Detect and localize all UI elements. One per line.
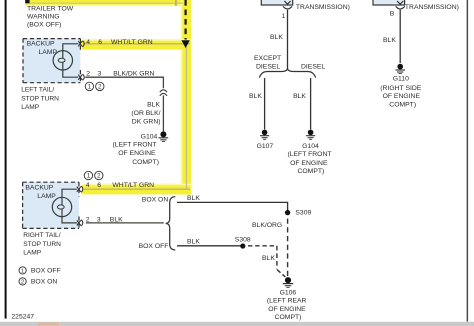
svg-text:OF ENGINE: OF ENGINE xyxy=(383,93,421,100)
wire: lamp2 WHT/LT GRN under highlight xyxy=(84,188,190,190)
wire: BLK except-diesel branch xyxy=(264,78,266,129)
svg-text:4: 4 xyxy=(86,39,90,46)
svg-text:OF ENGINE: OF ENGINE xyxy=(290,160,328,167)
wire: BOX OFF BLK to S308 xyxy=(177,245,243,247)
label: BACKUP LAMP (1) xyxy=(27,40,58,56)
svg-text:2: 2 xyxy=(21,279,24,285)
connector pin lamp1 bottom (2/3) xyxy=(78,74,84,80)
label: G106 (LEFT REAR OF ENGINE COMPT) xyxy=(267,289,307,321)
svg-text:WHT/LT GRN: WHT/LT GRN xyxy=(111,39,153,46)
connector box C2 (transmission, pin B) xyxy=(373,0,405,5)
svg-text:TRANSMISSION): TRANSMISSION) xyxy=(296,4,350,11)
inline connector (double arc) on BLK/DK GRN wire xyxy=(160,90,167,96)
svg-text:6: 6 xyxy=(98,39,102,46)
svg-text:BACKUP: BACKUP xyxy=(27,40,55,47)
lamp L1 (bulb symbol) xyxy=(53,51,72,70)
label: TRAILER TOW WARNING (BOX OFF) xyxy=(27,6,74,29)
brace (BOX ON / BOX OFF alternatives) xyxy=(166,197,176,250)
ground G106 xyxy=(283,277,293,287)
overbrace splitting C1 wire into two branches xyxy=(259,69,315,78)
label: G104 (LEFT FRONT OF ENGINE COMPT) xyxy=(113,133,159,166)
lamp L2 (bulb symbol) xyxy=(52,197,71,216)
svg-text:G104: G104 xyxy=(141,133,158,140)
svg-text:S309: S309 xyxy=(295,209,311,216)
svg-text:BACKUP: BACKUP xyxy=(25,185,53,192)
svg-text:DIESEL: DIESEL xyxy=(301,64,325,71)
svg-text:BOX OFF: BOX OFF xyxy=(31,268,61,275)
svg-text:LAMP: LAMP xyxy=(37,193,56,200)
svg-text:LAMP: LAMP xyxy=(23,250,42,257)
svg-text:BLK: BLK xyxy=(383,37,396,44)
connector pin lamp2 bottom (2/3) xyxy=(77,220,83,226)
wire: vertical WHT/LT GRN under highlight xyxy=(185,44,187,189)
wire: dashed drop with arrow (to WHT/LT GRN) xyxy=(181,0,189,48)
svg-text:225247: 225247 xyxy=(11,313,34,320)
svg-text:BLK: BLK xyxy=(293,93,306,100)
svg-text:G106: G106 xyxy=(280,289,297,296)
wire: BLK from lamp2 to brace xyxy=(86,222,164,224)
connector symbol at C2 xyxy=(396,1,405,9)
svg-text:(LEFT REAR: (LEFT REAR xyxy=(267,297,307,304)
page border left xyxy=(5,0,7,319)
wire: BOX ON BLK to S309 xyxy=(177,202,288,212)
svg-text:(RIGHT SIDE: (RIGHT SIDE xyxy=(380,85,422,92)
wire: grey stub top xyxy=(175,0,177,6)
ground G107 xyxy=(260,130,269,140)
pin labels 4 6 WHT/LT GRN (lamp1) xyxy=(86,39,152,46)
ground G104 (left front) xyxy=(159,131,169,141)
wire: lamp1 internal to pins xyxy=(63,44,79,77)
svg-text:LAMP: LAMP xyxy=(21,104,40,111)
svg-text:6: 6 xyxy=(97,182,101,189)
svg-text:BLK: BLK xyxy=(147,102,160,109)
svg-text:BLK/ORG: BLK/ORG xyxy=(252,222,282,229)
svg-text:WHT/LT GRN: WHT/LT GRN xyxy=(112,182,154,189)
svg-text:COMPT): COMPT) xyxy=(389,102,416,109)
label: LEFT TAIL/STOP TURN LAMP xyxy=(21,87,59,112)
svg-text:3: 3 xyxy=(98,70,102,77)
svg-text:OF ENGINE: OF ENGINE xyxy=(268,306,306,313)
svg-text:DIESEL: DIESEL xyxy=(256,64,280,71)
ground G104 (right diagram) xyxy=(306,130,315,140)
backup lamp 1 box (left tail) xyxy=(23,39,80,83)
svg-text:(BOX OFF): (BOX OFF) xyxy=(27,22,61,29)
svg-text:BOX ON: BOX ON xyxy=(31,279,58,286)
pin labels 4 6 WHT/LT GRN (lamp2) xyxy=(86,182,154,189)
svg-text:LEFT TAIL/: LEFT TAIL/ xyxy=(21,87,54,94)
highlight: vertical WHT/LT GRN run (yellow) xyxy=(181,0,191,195)
splice S309 xyxy=(285,210,290,215)
highlight: top horizontal wire (yellow) xyxy=(25,0,188,6)
svg-text:BLK: BLK xyxy=(187,195,200,202)
ground G110 xyxy=(395,64,405,74)
svg-text:STOP TURN: STOP TURN xyxy=(23,241,61,248)
highlight: lamp2 WHT/LT GRN wire (yellow) xyxy=(82,184,191,195)
svg-text:BLK: BLK xyxy=(187,239,200,246)
wire: top WHT/LT GRN under highlight xyxy=(27,2,183,4)
svg-text:OF ENGINE: OF ENGINE xyxy=(118,150,156,157)
backup lamp 2 box (right tail) xyxy=(23,182,79,228)
circled numbers 1 2 (above lamp2) xyxy=(84,171,103,179)
svg-text:1: 1 xyxy=(21,268,24,274)
svg-text:G104: G104 xyxy=(302,143,319,150)
svg-text:G110: G110 xyxy=(393,75,409,82)
svg-text:4: 4 xyxy=(86,182,90,189)
wire: BLK from C1 to brace xyxy=(287,10,289,70)
svg-text:B: B xyxy=(390,10,395,17)
label: G110 (RIGHT SIDE OF ENGINE COMPT) xyxy=(380,75,422,108)
svg-text:COMPT): COMPT) xyxy=(275,314,302,321)
wire: dashed BLK from S308 to G106 xyxy=(248,246,285,277)
svg-text:BLK: BLK xyxy=(262,255,275,262)
legend: circled 1 BOX OFF xyxy=(19,267,61,275)
svg-text:EXCEPT: EXCEPT xyxy=(254,55,281,62)
svg-text:G107: G107 xyxy=(257,143,274,150)
svg-text:BOX ON: BOX ON xyxy=(142,197,169,204)
wire: lamp1 WHT/LT GRN under highlight xyxy=(84,43,190,45)
svg-text:S308: S308 xyxy=(235,236,251,243)
highlight: lamp1 WHT/LT GRN wire (yellow) xyxy=(82,39,191,50)
splice S308 xyxy=(240,243,245,248)
svg-text:STOP TURN: STOP TURN xyxy=(21,96,59,103)
label: EXCEPT DIESEL xyxy=(254,55,281,70)
svg-text:DK GRN): DK GRN) xyxy=(132,118,161,125)
svg-text:RIGHT TAIL/: RIGHT TAIL/ xyxy=(23,232,61,239)
wire: BLK/DK GRN from lamp1 to G104 xyxy=(85,77,163,131)
svg-text:TRANSMISSION): TRANSMISSION) xyxy=(405,4,459,11)
legend: circled 2 BOX ON xyxy=(19,278,57,286)
svg-text:COMPT): COMPT) xyxy=(297,168,324,175)
connector symbol at C1 xyxy=(283,1,292,9)
connector pin lamp2 top (4/6) xyxy=(77,186,83,192)
wire: BLK from C2 to G110 xyxy=(399,10,401,63)
circled numbers 1 2 (lamp1) xyxy=(85,82,104,90)
svg-text:BLK: BLK xyxy=(270,34,283,41)
label: BACKUP LAMP (2) xyxy=(25,185,56,201)
svg-text:TRAILER TOW: TRAILER TOW xyxy=(27,6,74,13)
connector pin lamp1 top (4/6) xyxy=(78,41,84,47)
svg-text:BLK: BLK xyxy=(249,93,262,100)
label: RIGHT TAIL/STOP TURN LAMP xyxy=(23,232,61,257)
svg-text:1: 1 xyxy=(282,13,286,20)
wire: BLK diesel branch xyxy=(310,78,312,129)
svg-text:2: 2 xyxy=(86,70,90,77)
connector box C1 (transmission, pin 1) xyxy=(261,0,292,5)
svg-text:(LEFT FRONT: (LEFT FRONT xyxy=(287,151,331,158)
svg-text:(OR BLK/: (OR BLK/ xyxy=(131,110,160,117)
bottom scrollbar band xyxy=(0,322,474,326)
wire: dashed stub at top of highlight xyxy=(25,0,29,3)
wire: BLK/ORG dashed from S309 to G106 xyxy=(287,219,289,277)
svg-text:BOX OFF: BOX OFF xyxy=(139,243,169,250)
pin labels 2 3 BLK/DK GRN (lamp1) xyxy=(86,70,154,77)
svg-text:(LEFT FRONT: (LEFT FRONT xyxy=(113,141,157,148)
pin labels 2 3 BLK (lamp2) xyxy=(86,216,123,223)
label: G104 (LEFT FRONT OF ENGINE COMPT) right diagram xyxy=(287,143,331,175)
page border right xyxy=(467,0,469,322)
wire: lamp2 internal to pins xyxy=(62,189,77,223)
svg-text:BLK/DK GRN: BLK/DK GRN xyxy=(113,70,154,77)
label: BLK (OR BLK/DK GRN) xyxy=(131,102,160,126)
svg-text:WARNING: WARNING xyxy=(27,14,60,21)
svg-text:COMPT): COMPT) xyxy=(132,159,159,166)
